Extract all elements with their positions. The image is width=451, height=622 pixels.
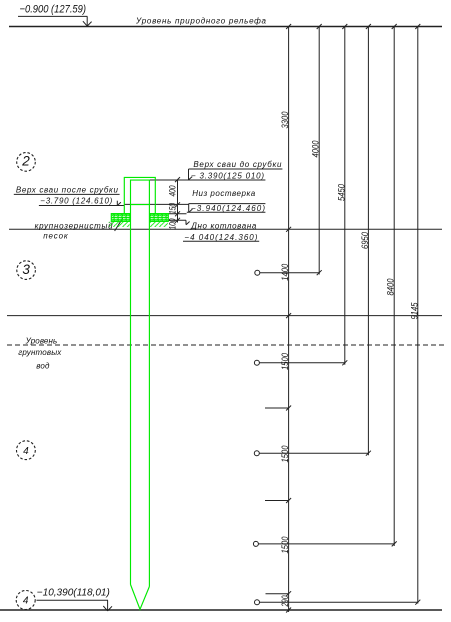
svg-text:−3.940(124.460): −3.940(124.460): [191, 204, 265, 213]
svg-text:6950: 6950: [360, 231, 371, 249]
svg-text:1500: 1500: [280, 536, 291, 554]
svg-text:вод: вод: [36, 361, 50, 370]
svg-text:400: 400: [167, 185, 178, 196]
svg-text:−3.790 (124.610): −3.790 (124.610): [40, 197, 112, 206]
svg-text:4: 4: [23, 596, 29, 607]
svg-text:3300: 3300: [280, 111, 291, 129]
svg-text:290: 290: [280, 595, 291, 607]
svg-text:100: 100: [167, 218, 178, 229]
svg-text:1500: 1500: [280, 445, 291, 463]
svg-text:Верх сваи до срубки: Верх сваи до срубки: [193, 160, 282, 169]
svg-text:грунтовых: грунтовых: [18, 348, 62, 357]
svg-text:Низ ростверка: Низ ростверка: [192, 189, 256, 198]
svg-text:Дно котлована: Дно котлована: [190, 221, 257, 230]
svg-text:Уровень: Уровень: [25, 337, 58, 346]
svg-text:2: 2: [21, 154, 30, 169]
svg-text:4: 4: [23, 446, 29, 457]
svg-text:4000: 4000: [311, 140, 322, 158]
svg-text:9145: 9145: [409, 302, 420, 320]
svg-text:Верх сваи после срубки: Верх сваи после срубки: [16, 186, 119, 195]
svg-text:−10,390(118,01): −10,390(118,01): [37, 588, 110, 599]
svg-text:Уровень природного рельефа: Уровень природного рельефа: [135, 17, 267, 26]
svg-text:1500: 1500: [280, 352, 291, 370]
svg-text:− 3.390(125 010): − 3.390(125 010): [191, 172, 264, 181]
svg-text:−4 040(124.360): −4 040(124.360): [184, 233, 257, 242]
svg-text:8400: 8400: [386, 278, 397, 296]
svg-text:3: 3: [22, 262, 30, 277]
svg-text:5450: 5450: [336, 183, 347, 201]
svg-text:1400: 1400: [280, 263, 291, 281]
svg-text:150: 150: [167, 203, 178, 214]
svg-text:песок: песок: [43, 231, 69, 240]
svg-text:−0.900 (127.59): −0.900 (127.59): [20, 4, 87, 16]
svg-text:крупнозернистый: крупнозернистый: [35, 222, 114, 231]
